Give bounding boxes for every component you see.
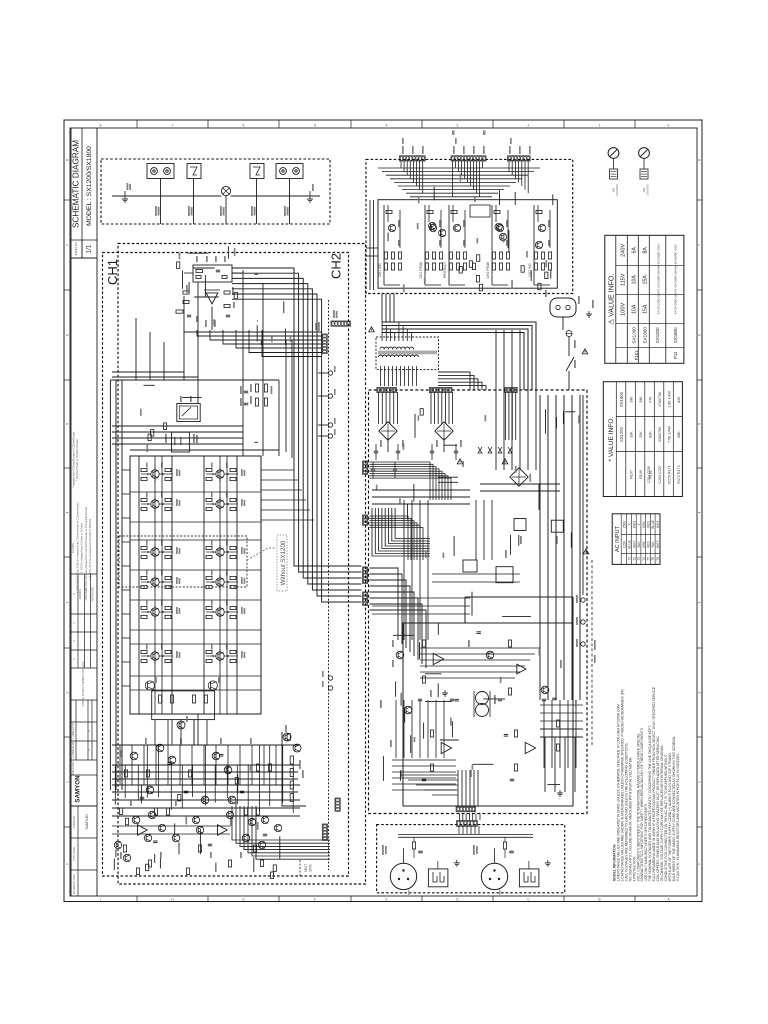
svg-text:RED: RED — [647, 540, 651, 547]
svg-text:CHASSIS: CHASSIS — [646, 184, 650, 196]
svg-text:3: 3 — [65, 601, 69, 603]
svg-text:4A-SX1800-2634*1+SX1800-2664(A: 4A-SX1800-2634*1+SX1800-2664(A-SX1800C-2… — [673, 244, 677, 314]
svg-text:SAMYON: SAMYON — [75, 775, 82, 803]
svg-text:3: 3 — [457, 123, 459, 127]
svg-text:SX1200: SX1200 — [619, 426, 624, 442]
svg-text:CH1 PEAK: CH1 PEAK — [419, 261, 423, 279]
svg-text:4A-SX1200-2634*1+SX1200-2664(A: 4A-SX1200-2634*1+SX1200-2664(A-SX1200C-2… — [656, 244, 660, 314]
svg-text:7.5K 1/4W: 7.5K 1/4W — [668, 426, 672, 443]
svg-text:APPLICANT: APPLICANT — [71, 761, 75, 776]
svg-text:1.8K 1/4W: 1.8K 1/4W — [668, 391, 672, 408]
svg-text:* VALUE INFO.: * VALUE INFO. — [608, 416, 615, 461]
svg-text:T2: T2 — [632, 557, 636, 561]
svg-text:6A: 6A — [631, 247, 637, 254]
svg-text:250V: 250V — [623, 520, 627, 529]
svg-text:33K: 33K — [630, 431, 634, 438]
svg-text:T4: T4 — [642, 557, 646, 561]
svg-text:CHECKED: CHECKED — [84, 588, 88, 601]
svg-text:Without SX1200: Without SX1200 — [280, 540, 287, 585]
svg-text:1: 1 — [599, 123, 601, 127]
svg-text:6: 6 — [243, 123, 245, 127]
svg-text:POWER BOARD NUMBER AND DATE: POWER BOARD NUMBER AND DATE — [81, 661, 85, 706]
svg-text:4. R171,R172 are changed from: 4. R171,R172 are changed from 82Kohm to … — [89, 519, 92, 578]
svg-text:T6: T6 — [651, 557, 655, 561]
svg-text:82K: 82K — [677, 396, 681, 403]
svg-text:39K: 39K — [639, 396, 643, 403]
svg-text:BLK: BLK — [637, 541, 641, 548]
svg-text:100V: 100V — [620, 303, 626, 316]
svg-text:1 2004.10.07: 1 2004.10.07 — [71, 723, 75, 739]
svg-text:SINK: SINK — [309, 863, 313, 871]
svg-text:BLUE: BLUE — [651, 520, 655, 528]
svg-text:SX1200: SX1200 — [631, 327, 636, 344]
svg-text:2. R178 is changed from 15Kohm: 2. R178 is changed from 15Kohm to 10Kohm — [81, 523, 84, 573]
svg-text:COMPANY: COMPANY — [73, 815, 76, 828]
svg-text:BLUE: BLUE — [628, 540, 632, 548]
svg-text:DRAWN: DRAWN — [78, 589, 82, 599]
svg-text:G: G — [242, 897, 245, 901]
svg-text:APPROVED: APPROVED — [91, 587, 95, 602]
svg-text:/!\ CAUTION : FLAMMABLE RESIST: /!\ CAUTION : FLAMMABLE RESISTORS ARE MO… — [676, 753, 680, 882]
svg-text:4700/700: 4700/700 — [658, 392, 662, 407]
svg-text:1: 1 — [65, 781, 69, 783]
svg-text:C204 C208: C204 C208 — [647, 466, 651, 483]
svg-text:10A: 10A — [631, 275, 637, 285]
svg-text:6: 6 — [65, 334, 69, 336]
svg-text:15A: 15A — [642, 275, 648, 285]
svg-text:8: 8 — [100, 123, 102, 127]
svg-text:4: 4 — [386, 123, 388, 127]
svg-text:BLK: BLK — [651, 541, 655, 548]
svg-text:SCHEMATIC DIAGRAM: SCHEMATIC DIAGRAM — [72, 140, 81, 228]
svg-text:SX-1800:: SX-1800: — [72, 542, 75, 553]
svg-text:CH1: CH1 — [105, 259, 120, 285]
svg-text:5: 5 — [698, 423, 702, 425]
svg-text:0: 0 — [698, 863, 702, 865]
svg-text:WH3: WH3 — [656, 521, 660, 528]
svg-text:PROTECT: PROTECT — [443, 262, 447, 278]
svg-text:2 2006.03.09: 2 2006.03.09 — [71, 742, 75, 758]
svg-text:CH2: CH2 — [329, 253, 344, 279]
svg-text:R107: R107 — [630, 470, 634, 479]
svg-text:WHT: WHT — [632, 541, 636, 548]
svg-text:APPROVED DATE: APPROVED DATE — [73, 874, 76, 895]
svg-text:I: I — [100, 897, 101, 901]
svg-text:WH3: WH3 — [632, 521, 636, 528]
svg-text:MODEL : SX1200/SX1800: MODEL : SX1200/SX1800 — [86, 146, 93, 226]
svg-text:4: 4 — [65, 511, 69, 513]
svg-text:R170 R171: R170 R171 — [668, 465, 672, 483]
svg-text:10A: 10A — [631, 304, 637, 314]
svg-text:SX1800: SX1800 — [642, 327, 647, 344]
svg-text:SHEET NO: SHEET NO — [74, 242, 78, 255]
svg-text:8A: 8A — [642, 247, 648, 254]
svg-text:7: 7 — [698, 244, 702, 246]
svg-text:1: 1 — [698, 781, 702, 783]
svg-text:3300/700: 3300/700 — [658, 427, 662, 442]
svg-text:47K: 47K — [649, 396, 653, 403]
svg-text:3. R151,R157 are changed from: 3. R151,R157 are changed from 3.9Kohm/0.… — [85, 506, 88, 589]
svg-text:5: 5 — [314, 123, 316, 127]
svg-text:8: 8 — [65, 159, 69, 161]
svg-text:SAMYON: SAMYON — [85, 814, 89, 830]
svg-text:WHT: WHT — [656, 541, 660, 548]
svg-text:3: 3 — [698, 601, 702, 603]
svg-text:6: 6 — [698, 334, 702, 336]
svg-text:0: 0 — [668, 123, 670, 127]
svg-text:T1: T1 — [628, 557, 632, 561]
svg-text:AC INPUT: AC INPUT — [615, 525, 621, 552]
svg-text:1/1: 1/1 — [86, 244, 93, 253]
svg-text:7: 7 — [172, 123, 174, 127]
svg-text:GRY: GRY — [642, 520, 646, 528]
svg-text:SX1200: SX1200 — [655, 327, 660, 343]
svg-text:15A: 15A — [642, 304, 648, 314]
svg-text:CH2 PEAK: CH2 PEAK — [486, 261, 490, 279]
svg-text:7: 7 — [65, 244, 69, 246]
svg-text:68K: 68K — [677, 431, 681, 438]
svg-text:C203 C207: C203 C207 — [658, 465, 662, 483]
svg-text:CH1 SIG: CH1 SIG — [378, 263, 382, 277]
svg-text:T8: T8 — [656, 557, 660, 561]
svg-text:RED: RED — [647, 520, 651, 527]
svg-text:CHASSIS: CHASSIS — [615, 184, 619, 196]
svg-text:SX1800: SX1800 — [619, 391, 624, 407]
svg-text:* 15ohm/0.5watts to 10ohm/0.25: * 15ohm/0.5watts to 10ohm/0.25watts — [76, 438, 79, 481]
svg-text:P11: P11 — [673, 351, 678, 359]
svg-text:R172 R173: R172 R173 — [677, 465, 681, 483]
svg-text:SX1800: SX1800 — [673, 327, 678, 343]
svg-text:S: S — [72, 593, 76, 595]
svg-text:F101: F101 — [634, 350, 639, 361]
svg-text:33K: 33K — [639, 431, 643, 438]
svg-text:F: F — [314, 897, 316, 901]
svg-text:R109: R109 — [639, 470, 643, 479]
svg-text:T3: T3 — [637, 557, 641, 561]
svg-text:4: 4 — [698, 511, 702, 513]
svg-text:TYPE CODE: TYPE CODE — [73, 846, 76, 861]
svg-text:8: 8 — [698, 159, 702, 161]
svg-text:GRY: GRY — [642, 540, 646, 548]
svg-text:39K: 39K — [630, 396, 634, 403]
svg-text:240V: 240V — [620, 244, 626, 257]
svg-text:T5: T5 — [647, 557, 651, 561]
svg-text:2: 2 — [528, 123, 530, 127]
svg-text:2: 2 — [65, 691, 69, 693]
svg-text:GN: GN — [612, 188, 616, 193]
svg-text:115V: 115V — [623, 540, 627, 548]
svg-text:115V: 115V — [620, 273, 626, 286]
svg-text:5: 5 — [65, 423, 69, 425]
svg-text:82K: 82K — [649, 431, 653, 438]
svg-text:2: 2 — [698, 691, 702, 693]
svg-text:0: 0 — [65, 863, 69, 865]
svg-text:GN: GN — [642, 188, 646, 193]
svg-text:⚠ VALUE INFO.: ⚠ VALUE INFO. — [607, 274, 615, 325]
svg-text:HEAT: HEAT — [304, 864, 308, 872]
